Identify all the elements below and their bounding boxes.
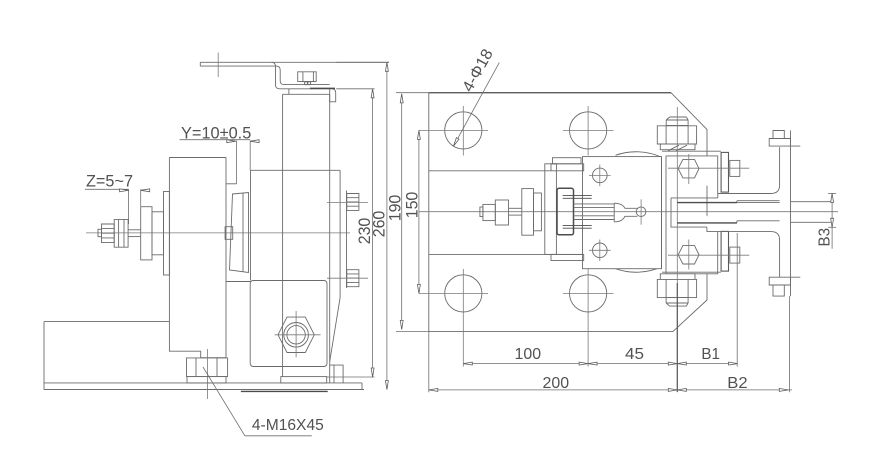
arrow Y left	[227, 140, 236, 143]
plate inner line bottom	[429, 253, 584, 255]
rv disc 1	[522, 189, 534, 236]
svg-text:Z=5~7: Z=5~7	[86, 173, 133, 191]
svg-text:190: 190	[386, 195, 404, 222]
washer plate top	[721, 152, 728, 192]
leader 4-phi18	[453, 63, 499, 147]
flange plate	[164, 192, 170, 276]
pushrod bullet	[614, 203, 637, 222]
centerline left view	[86, 232, 350, 234]
hole bottom-right	[570, 275, 607, 312]
arm lever	[780, 131, 791, 297]
panel link line	[226, 281, 251, 283]
arrow Z right	[141, 189, 150, 192]
threaded rod	[128, 229, 141, 231]
arrow 150 bottom	[417, 284, 420, 293]
bottom bolt washer	[660, 274, 695, 280]
shaft big nut	[114, 219, 128, 247]
dim row2	[429, 389, 792, 391]
arrow B3 bottom	[831, 218, 834, 227]
arm top fitting	[769, 131, 800, 147]
front housing	[169, 158, 226, 358]
rear body right edge	[339, 170, 341, 297]
top bolt seat line	[662, 150, 721, 152]
side bolt upper centerline	[327, 201, 368, 203]
foot bolt crosshair	[207, 349, 209, 399]
bracket block	[666, 156, 718, 274]
arrow 4-phi18	[453, 138, 459, 147]
hex top crosshair h	[668, 167, 749, 169]
rv shaft nut	[483, 204, 495, 220]
arrow Y right	[250, 140, 259, 143]
arrow B1 right	[729, 362, 738, 365]
hex nut bottom	[678, 246, 699, 264]
dim 190 line	[401, 94, 403, 330]
arrow B1 left	[677, 362, 686, 365]
plate inner line top	[429, 170, 551, 172]
dim Z	[85, 188, 129, 190]
brake disc	[230, 193, 249, 273]
bracket dark seat line	[310, 87, 335, 89]
bracket bolt washer line	[300, 81, 315, 83]
block screw bottom	[593, 243, 608, 258]
svg-text:200: 200	[543, 375, 570, 392]
rv support plate	[545, 164, 557, 255]
hole top-left	[445, 112, 482, 149]
rear body top edge	[251, 169, 341, 171]
top bolt thread marks	[668, 145, 687, 151]
base plate	[44, 322, 364, 390]
washer plate bottom	[721, 231, 728, 271]
bottom bolt seat line	[662, 271, 721, 273]
leader 4-M16X45	[203, 367, 312, 436]
rear body inner vertical	[282, 94, 284, 376]
housing circle bottom arc	[616, 267, 662, 272]
foot pad right	[281, 377, 327, 383]
bracket slot	[671, 194, 718, 232]
flange face line	[346, 191, 348, 289]
fork top prong	[677, 201, 779, 203]
side bolt upper	[347, 194, 359, 211]
hatch lines top	[563, 196, 592, 199]
arrow 200 left	[429, 388, 438, 391]
hex nut top	[678, 159, 699, 178]
pin circle	[636, 207, 646, 217]
disc hub tongue	[225, 227, 233, 240]
dim 230 line	[372, 89, 374, 377]
hatch lines bottom	[563, 226, 592, 229]
svg-text:100: 100	[515, 346, 542, 363]
column top edge	[283, 93, 330, 95]
hex plug crosshair	[275, 334, 321, 336]
vertical centerline right view	[676, 107, 678, 392]
ext plate left	[428, 331, 430, 392]
nut square top	[730, 160, 740, 176]
centerline right view horizontal	[419, 211, 838, 213]
back plate top edge dark	[429, 92, 671, 94]
hex bottom crosshair h	[668, 254, 749, 256]
dim 150 line	[418, 130, 420, 293]
foot pad left	[187, 377, 226, 383]
dim 260 top extension line	[272, 61, 390, 63]
arrow 260 bottom	[385, 381, 388, 390]
fork bottom prong	[677, 221, 779, 240]
svg-text:B3: B3	[817, 228, 834, 247]
lower panel	[250, 281, 327, 367]
housing notch step	[226, 183, 237, 185]
dim B3	[831, 193, 833, 248]
magnet block	[583, 157, 662, 269]
hole bottom-left	[445, 275, 482, 312]
arrow B2 right	[779, 388, 788, 391]
arrow 230 top	[371, 89, 374, 98]
rv pushrod	[574, 204, 615, 220]
diagonal strut	[330, 298, 340, 362]
svg-text:B2: B2	[727, 375, 747, 392]
bracket crosshair	[217, 53, 219, 78]
hole top-right	[570, 112, 607, 149]
arrows	[120, 62, 834, 391]
dim 260 line	[386, 62, 388, 389]
side bolt lower	[347, 270, 359, 287]
side bolt lower centerline	[327, 277, 368, 279]
arrow 230 bottom	[371, 368, 374, 377]
arrow 190 bottom	[400, 320, 403, 329]
svg-text:150: 150	[403, 192, 421, 219]
bracket mount pad	[288, 89, 290, 95]
rv rod	[509, 207, 522, 209]
dim Y	[180, 139, 251, 141]
top stud bolt	[666, 117, 688, 125]
base dark line	[241, 390, 328, 392]
back plate	[429, 93, 707, 332]
fork top outer	[718, 185, 780, 194]
arm bottom fitting	[769, 277, 800, 296]
rv flange bottom	[551, 254, 584, 260]
shaft tip	[98, 229, 102, 236]
arrow 150 top	[417, 130, 420, 139]
B3 extension lines	[791, 202, 833, 223]
spring block	[557, 188, 574, 235]
rv shaft washer	[495, 200, 508, 225]
centerline dark lower segment	[676, 283, 678, 392]
housing circle top arc	[616, 152, 662, 157]
rv flange top	[551, 164, 584, 171]
bracket bolt	[298, 72, 317, 82]
ext B2 arm	[788, 296, 790, 392]
disc 2	[152, 212, 164, 255]
bracket tab	[330, 89, 336, 102]
right foot	[330, 365, 343, 383]
arrow 100 left	[463, 362, 472, 365]
rv shaft small tip	[480, 207, 483, 217]
svg-text:4-M16X45: 4-M16X45	[252, 417, 324, 434]
arrow B2 left	[677, 388, 686, 391]
rv disc 2	[534, 193, 542, 231]
foot bolt block	[187, 358, 228, 377]
bracket bolt thread marks	[305, 82, 308, 85]
dim row1	[463, 363, 737, 365]
shaft small nut	[102, 224, 115, 243]
arrow 200 right	[668, 388, 677, 391]
block screw top	[593, 168, 608, 183]
block right edge	[661, 157, 663, 269]
arrow 190 top	[400, 94, 403, 103]
arrow B3 top	[831, 193, 834, 202]
svg-text:B1: B1	[701, 346, 720, 363]
svg-text:45: 45	[625, 346, 644, 363]
arrow 45 right	[668, 362, 677, 365]
rear body left edge	[250, 170, 252, 280]
fork dark segments	[677, 203, 737, 223]
ext B1	[736, 233, 738, 367]
nut square bottom	[730, 247, 740, 263]
svg-text:Y=10±0.5: Y=10±0.5	[181, 124, 251, 142]
arrow Z left	[120, 189, 129, 192]
disc 1	[141, 207, 152, 260]
hex plug	[278, 317, 314, 352]
top bracket	[200, 62, 335, 93]
arrow 100 right	[579, 362, 588, 365]
arrow 260 top	[385, 62, 388, 71]
rear body column right edge	[329, 94, 331, 383]
arrow 45 left	[588, 362, 597, 365]
